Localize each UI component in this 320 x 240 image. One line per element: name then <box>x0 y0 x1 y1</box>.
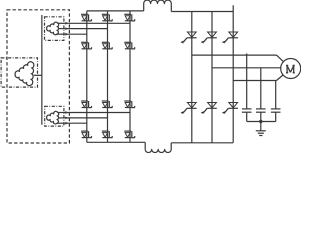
wire: motor phase u <box>192 54 277 56</box>
wire: rectifier negative bus <box>87 141 145 143</box>
transformer T1 secondary winding 2 (delta group) <box>47 111 59 124</box>
wire: inverter negative bus <box>171 142 233 144</box>
thyristor VS15 (inverter top leg 3) <box>229 32 238 37</box>
thyristor VS9 (rectifier row 3 leg 3) <box>124 100 131 102</box>
wire: inverter leg 2 vertical <box>211 12 213 143</box>
capacitor C3 <box>275 81 277 109</box>
wire: ground stem <box>260 122 262 131</box>
transformer cabinet dashed enclosure <box>7 10 69 143</box>
thyristor VS1 (rectifier row 1 leg 1) <box>81 13 88 15</box>
wire: delta winding to core link <box>34 74 42 76</box>
wire: phase b2 (winding2 to rectifier leg 5) <box>64 117 108 119</box>
primary winding dash-dot enclosure <box>1 58 37 87</box>
ground symbol <box>256 130 266 132</box>
thyristor VS16 (inverter bottom leg 1) <box>187 103 196 108</box>
wire: phase a1 (winding1 to rectifier leg 3) <box>64 22 130 24</box>
wire: inverter leg 1 vertical <box>191 12 193 143</box>
arrow on phase c2 <box>65 122 68 125</box>
arrow on phase c1 <box>65 33 68 36</box>
wire: rectifier positive bus <box>87 10 144 12</box>
wire: phase b1 (winding1 to rectifier leg 2) <box>64 28 108 30</box>
thyristor VS2 (rectifier row 1 leg 2) <box>102 13 109 15</box>
wire: riser rectifier bus to smoothing reactor L1 <box>143 4 145 11</box>
wire: riser reactor L1 to inverter bus <box>170 4 172 12</box>
wire: inverter positive bus <box>171 11 233 13</box>
wire: rectifier leg 1 vertical <box>86 11 88 142</box>
thyristor VS4 (rectifier row 2 leg 1) <box>81 41 88 43</box>
motor M1 label <box>286 66 288 73</box>
thyristor VS18 (inverter bottom leg 3) <box>229 103 238 108</box>
transformer T1 primary delta winding <box>15 62 34 86</box>
thyristor VS7 (rectifier row 3 leg 1) <box>81 100 88 102</box>
transformer T1 secondary winding 1 (wye group) <box>47 22 59 35</box>
wire: drop rectifier bus to reactor L2 <box>144 142 146 149</box>
wire: phase c2 (winding2 to rectifier leg 4) <box>64 122 87 124</box>
wire: inverter leg 3 vertical <box>232 5 234 143</box>
inductor L2 (dc link reactor, bottom) <box>145 149 171 152</box>
thyristor VS6 (rectifier row 2 leg 3) <box>124 41 131 43</box>
thyristor VS11 (rectifier row 4 leg 2) <box>102 130 109 132</box>
thyristor VS8 (rectifier row 3 leg 2) <box>102 100 109 102</box>
secondary winding 1 dash-dot enclosure <box>45 17 64 41</box>
thyristor VS3 (rectifier row 1 leg 3) <box>124 13 131 15</box>
wire: riser reactor L2 to inverter bus <box>170 143 172 150</box>
wire: phase c1 (winding1 to rectifier leg 1) <box>64 33 87 35</box>
secondary winding 2 dash-dot enclosure <box>45 106 64 126</box>
thyristor VS5 (rectifier row 2 leg 2) <box>102 41 109 43</box>
thyristor VS13 (inverter top leg 1) <box>187 32 196 37</box>
arrow on phase b1 <box>65 27 68 30</box>
thyristor VS12 (rectifier row 4 leg 3) <box>124 130 131 132</box>
thyristor VS10 (rectifier row 4 leg 1) <box>81 130 88 132</box>
wire: rectifier leg 2 vertical <box>107 11 109 142</box>
arrow on phase b2 <box>65 117 68 120</box>
thyristor VS14 (inverter top leg 2) <box>208 32 217 37</box>
capacitor C2 <box>260 68 262 109</box>
motor M1 circle <box>281 59 301 79</box>
wire: rectifier leg 3 vertical <box>129 11 131 142</box>
wire: phase a2 (winding2 to rectifier leg 6) <box>64 112 130 114</box>
capacitor C1 <box>246 53 248 109</box>
inductor L1 (dc link reactor, top) <box>144 0 172 3</box>
thyristor VS17 (inverter bottom leg 2) <box>208 103 217 108</box>
wire: capacitor common bus <box>247 121 276 123</box>
wire: motor phase w <box>233 80 276 82</box>
junction dot at capacitor bus <box>259 120 262 123</box>
wire: transformer core link vertical <box>41 15 43 125</box>
arrow on phase a2 <box>65 111 68 114</box>
arrow on phase a1 <box>65 22 68 25</box>
wire: motor phase v <box>212 67 281 69</box>
